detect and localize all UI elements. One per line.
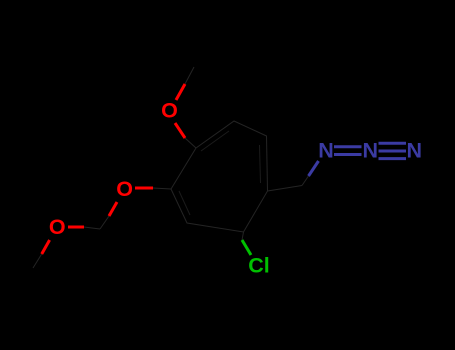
svg-text:Cl: Cl <box>248 254 270 278</box>
wire: top methoxy O to methyl (red half) <box>176 84 185 100</box>
svg-text:N: N <box>407 138 423 162</box>
ring double bond inner line (lower-left edge) <box>179 191 190 215</box>
wire: left ether O to MOM CH2 (red half) <box>109 202 117 216</box>
wire: benzylic CH2 to azide N1 (carbon half) <box>302 176 309 186</box>
wire: top methoxy O to ring (red half) <box>175 123 185 138</box>
svg-text:O: O <box>116 177 133 201</box>
wire: Cl to ring C2 (green half) <box>242 240 251 255</box>
wire: top methoxy O to ring C4 (carbon half) <box>185 138 196 148</box>
svg-text:O: O <box>49 215 66 239</box>
svg-text:O: O <box>161 99 178 123</box>
azide N=N double bond <box>334 143 406 158</box>
wire: left ether O to ring (red half) <box>135 187 153 190</box>
azide N#N triple bond <box>379 142 407 145</box>
wire: MOM O-CH2 (carbon half) <box>100 216 109 229</box>
wire: MOM terminal O-CH3 (carbon half) <box>33 254 42 268</box>
wire: ring C1 to benzylic CH2 <box>268 186 303 192</box>
wire: methyl to top methoxy O (carbon half) <box>185 67 194 84</box>
svg-text:N: N <box>363 138 379 162</box>
wire: CH2-O of MOM (carbon half) <box>84 227 100 229</box>
wire: MOM second O to CH2 (red half) <box>68 226 84 229</box>
wire: benzylic CH2 to azide N1 (blue half) <box>309 161 319 176</box>
svg-text:N: N <box>318 138 334 162</box>
wire: ring C2 to Cl (carbon half) <box>242 232 244 240</box>
wire: MOM second O to terminal methyl (red half) <box>42 240 50 254</box>
heteroatom-side half bonds <box>42 84 319 255</box>
wire: MOM ether O to ring C5 (carbon half) <box>153 188 171 189</box>
ring double bond inner line (right edge) <box>179 131 261 215</box>
benzene ring (carbon skeleton) <box>171 121 268 232</box>
carbon-side half bonds <box>33 67 309 268</box>
ring double bond inner line (upper-left edge) <box>201 131 229 151</box>
